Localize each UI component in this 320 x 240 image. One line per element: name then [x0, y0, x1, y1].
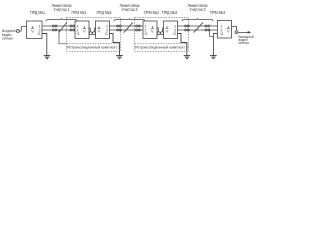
svg-text:V: V: [227, 29, 230, 33]
svg-text:ПРД Мк3: ПРД Мк3: [162, 10, 177, 15]
junction dots on line 2 wire 2: [120, 30, 121, 31]
svg-text:сигнал: сигнал: [2, 35, 13, 40]
wire line section 2 (two wires, connector circles, cable slash): [110, 22, 144, 32]
ground under kit 2: [184, 56, 191, 59]
svg-text:Участок 1: Участок 1: [54, 7, 71, 12]
svg-text:V: V: [98, 29, 101, 33]
svg-text:V: V: [166, 29, 169, 33]
brace over line section 3: [182, 18, 213, 21]
svg-text:G: G: [173, 32, 176, 36]
wire connector pair inside kit 1: [89, 28, 96, 35]
svg-text:ПРМ Мк3: ПРМ Мк3: [210, 10, 225, 15]
wire ПРМ Мк3 pin G to ground: [213, 34, 217, 56]
svg-text:сигнал: сигнал: [239, 41, 250, 45]
wire output with arrow: [238, 31, 248, 33]
svg-text:G: G: [105, 32, 108, 36]
svg-text:ПРД Мк1: ПРД Мк1: [30, 10, 45, 15]
wire input to transmitter 1: [19, 27, 26, 32]
svg-text:Участок 3: Участок 3: [190, 7, 207, 12]
svg-text:Участок 2: Участок 2: [122, 7, 139, 12]
svg-text:ПРМ Мк1: ПРМ Мк1: [72, 10, 87, 15]
svg-text:ПРМ Мк2: ПРМ Мк2: [144, 10, 159, 15]
wire receiver 3 to output jack: [232, 27, 237, 31]
wire ПРД Мк1 pin G to ground: [42, 34, 47, 56]
svg-text:G: G: [145, 32, 148, 36]
transmitter block ПРД Мк2: [96, 21, 110, 39]
svg-text:V: V: [151, 29, 154, 33]
svg-text:V: V: [31, 29, 34, 33]
brace over line section 1: [46, 18, 77, 21]
wire shield drop to receiver 3 ground: [209, 30, 213, 36]
brace over line section 2: [114, 18, 145, 21]
svg-text:Ретрансляционный комплект 1: Ретрансляционный комплект 1: [67, 45, 120, 50]
wire line section 3 (two wires, connector circles, cable slash): [178, 22, 218, 32]
junction dot on line 1 wire 2: [58, 29, 60, 31]
receiver block ПРМ Мк1: [75, 21, 89, 39]
label line section 1 (Линия связи / Участок 1): [52, 3, 72, 12]
svg-text:V: V: [83, 29, 86, 33]
receiver block ПРМ Мк2: [143, 21, 157, 39]
wire line section 1 (two wires, connector circles, cable slash): [42, 22, 75, 32]
dashed divider kit 1: [67, 43, 121, 45]
transmitter block ПРД Мк3: [164, 21, 178, 39]
ground under kit 1: [116, 56, 123, 59]
svg-text:Ретрансляционный комплект 2: Ретрансляционный комплект 2: [135, 45, 188, 50]
svg-text:ПРД Мк2: ПРД Мк2: [97, 10, 112, 15]
dashed box retransmission kit 2: [135, 18, 189, 52]
wire shield drop to kit 1 chassis: [59, 30, 67, 44]
label line section 3 (Линия связи / Участок 3): [188, 3, 208, 12]
junction dot on line 3 wire 2: [188, 30, 189, 31]
label input signal (Входной видео сигнал): [2, 28, 16, 40]
transmitter block ПРД Мк1: [27, 21, 43, 39]
connector input jack: [16, 30, 19, 33]
wire connector pair inside kit 2: [157, 28, 164, 35]
label line section 2 (Линия связи / Участок 2): [120, 3, 140, 12]
svg-text:G: G: [77, 32, 80, 36]
ground under ПРМ Мк3: [210, 56, 217, 59]
dashed divider kit 2: [135, 43, 189, 45]
connector output jack: [235, 31, 238, 34]
wire kit 2 pin G to ground: [178, 34, 187, 56]
receiver block ПРМ Мк3: [218, 21, 232, 39]
wire kit 1 pin G to ground: [110, 34, 120, 56]
dashed box retransmission kit 1: [67, 18, 121, 52]
label output signal (Выходной видео сигнал): [239, 35, 254, 45]
ground under ПРД Мк1: [44, 56, 51, 59]
svg-text:G: G: [38, 32, 41, 36]
svg-text:G: G: [220, 32, 223, 36]
